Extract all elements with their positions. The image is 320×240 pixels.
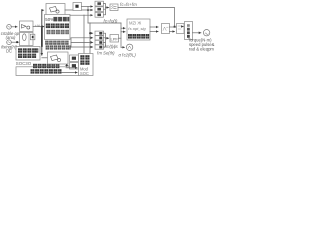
wire — [11, 26, 17, 28]
modulator icon — [51, 55, 61, 62]
scope circle — [203, 30, 209, 36]
mod box 3 — [95, 40, 104, 44]
arrow B to C — [182, 26, 184, 28]
wire to PD — [121, 46, 125, 48]
stack2 bus right — [104, 33, 106, 47]
wire CB top output — [70, 14, 93, 16]
wire laser to CB — [33, 26, 44, 28]
svg-text:f c=f o(t): f c=f o(t) — [104, 19, 118, 24]
stack2 input wires — [90, 32, 93, 34]
box M1 — [110, 4, 118, 11]
wire M2 to vertical — [119, 37, 122, 39]
svg-text:SOC: SOC — [80, 71, 89, 76]
box B1 modulator2 — [48, 52, 69, 64]
wire top into T1 — [42, 9, 44, 11]
node junction — [41, 26, 43, 28]
svg-text:f m Se(th): f m Se(th) — [97, 51, 115, 56]
wire arrow MZI 2 — [121, 31, 125, 33]
wire vertical x121 — [120, 23, 122, 47]
wire A to B bottom — [170, 31, 175, 33]
box L1 laser — [20, 21, 34, 32]
wire vertical x90 — [89, 23, 91, 54]
wire arrow down to B1 — [41, 54, 43, 55]
wire T1 output — [65, 9, 93, 11]
svg-text:f m(t)ɸs: f m(t)ɸs — [105, 44, 119, 49]
node junction — [174, 26, 176, 28]
svg-text:LPF: LPF — [111, 37, 119, 42]
box A — [162, 24, 170, 34]
wire vertical x84 — [83, 15, 85, 54]
wire into TB Mod — [66, 67, 77, 69]
wire vertical x71 — [70, 38, 72, 47]
fake cjk row mid — [47, 30, 69, 34]
PM box 1 — [95, 1, 104, 6]
icon dark square — [75, 5, 78, 8]
box M2 LPF — [110, 35, 119, 43]
wire MZI out 1 — [150, 26, 158, 28]
fake cjk LB row2 — [31, 69, 62, 73]
svg-text:+%: +% — [35, 24, 41, 28]
wire into SB2 — [66, 64, 69, 66]
wire thick segment — [41, 29, 43, 47]
text below CB row2 — [46, 45, 71, 49]
fake cjk row dark MZI — [128, 34, 149, 39]
laser icon — [22, 25, 30, 30]
box SB2 — [70, 63, 79, 70]
wire into B1 — [42, 57, 48, 59]
stack1 bus right — [104, 4, 106, 15]
node junction — [87, 9, 89, 11]
box TB phase demod — [79, 54, 94, 76]
node junction — [16, 41, 18, 43]
mod box 1 — [95, 31, 104, 35]
wire M1 to right — [118, 8, 175, 26]
svg-text:(anu): (anu) — [6, 35, 16, 40]
svg-text:SOC3O: SOC3O — [16, 61, 32, 66]
modulator icon — [50, 7, 60, 14]
box C tall — [185, 22, 193, 40]
svg-text:MZI Ж: MZI Ж — [129, 20, 141, 25]
node junction — [89, 32, 91, 34]
PD circle — [126, 44, 132, 50]
box LB outer — [16, 67, 80, 76]
mod box 2 — [95, 36, 104, 40]
box B — [177, 24, 185, 34]
lens icon — [23, 34, 27, 41]
texture overlay — [18, 24, 149, 74]
fake cjk TB row1 — [80, 55, 89, 59]
box T1 modulator — [46, 4, 65, 17]
wire y23 horizontal — [88, 22, 121, 24]
wire — [11, 41, 19, 43]
box CB 50% coupler (chinese block) — [45, 15, 71, 40]
wire A to B top — [170, 26, 177, 28]
wire arrow MZI 1 — [121, 27, 125, 29]
svg-text:DC: DC — [6, 49, 12, 54]
fake cjk LB row1 — [33, 64, 59, 68]
box T2 — [73, 3, 82, 11]
circulator icon — [29, 33, 35, 46]
box UL computer — [16, 47, 40, 61]
fake cjk UL row1 — [18, 48, 38, 52]
svg-text:rad & eleqpm: rad & eleqpm — [189, 47, 214, 52]
box SB1 — [70, 55, 79, 62]
box MZI — [127, 19, 150, 40]
svg-text:f s opt_sig: f s opt_sig — [128, 26, 146, 31]
text below CB row1 — [45, 41, 68, 45]
signal source circle V2 — [7, 40, 12, 45]
wire C to scope — [193, 32, 202, 34]
svg-text:50%: 50% — [45, 17, 54, 22]
wire T2 out — [82, 6, 93, 8]
stacked letters — [187, 24, 190, 38]
fake cjk row dark — [46, 24, 69, 29]
wire main vertical bus — [41, 10, 43, 54]
wire to M1 — [106, 7, 109, 9]
fake cjk TB row2 — [80, 60, 89, 64]
wire MZI out 2 — [150, 31, 158, 33]
PM box 3 — [95, 12, 104, 17]
signal source circle V1 — [7, 25, 12, 30]
fake cjk UL row2 — [18, 54, 36, 58]
wire into TB SOC — [62, 72, 78, 74]
wire to M2 — [106, 37, 109, 39]
svg-text:α f c2(θ L): α f c2(θ L) — [119, 53, 137, 58]
box L2 coupler — [20, 33, 34, 46]
svg-text:f c=fs+f m: f c=fs+f m — [120, 2, 137, 7]
mod box 4 — [95, 45, 104, 49]
PM box 2 — [95, 7, 104, 12]
